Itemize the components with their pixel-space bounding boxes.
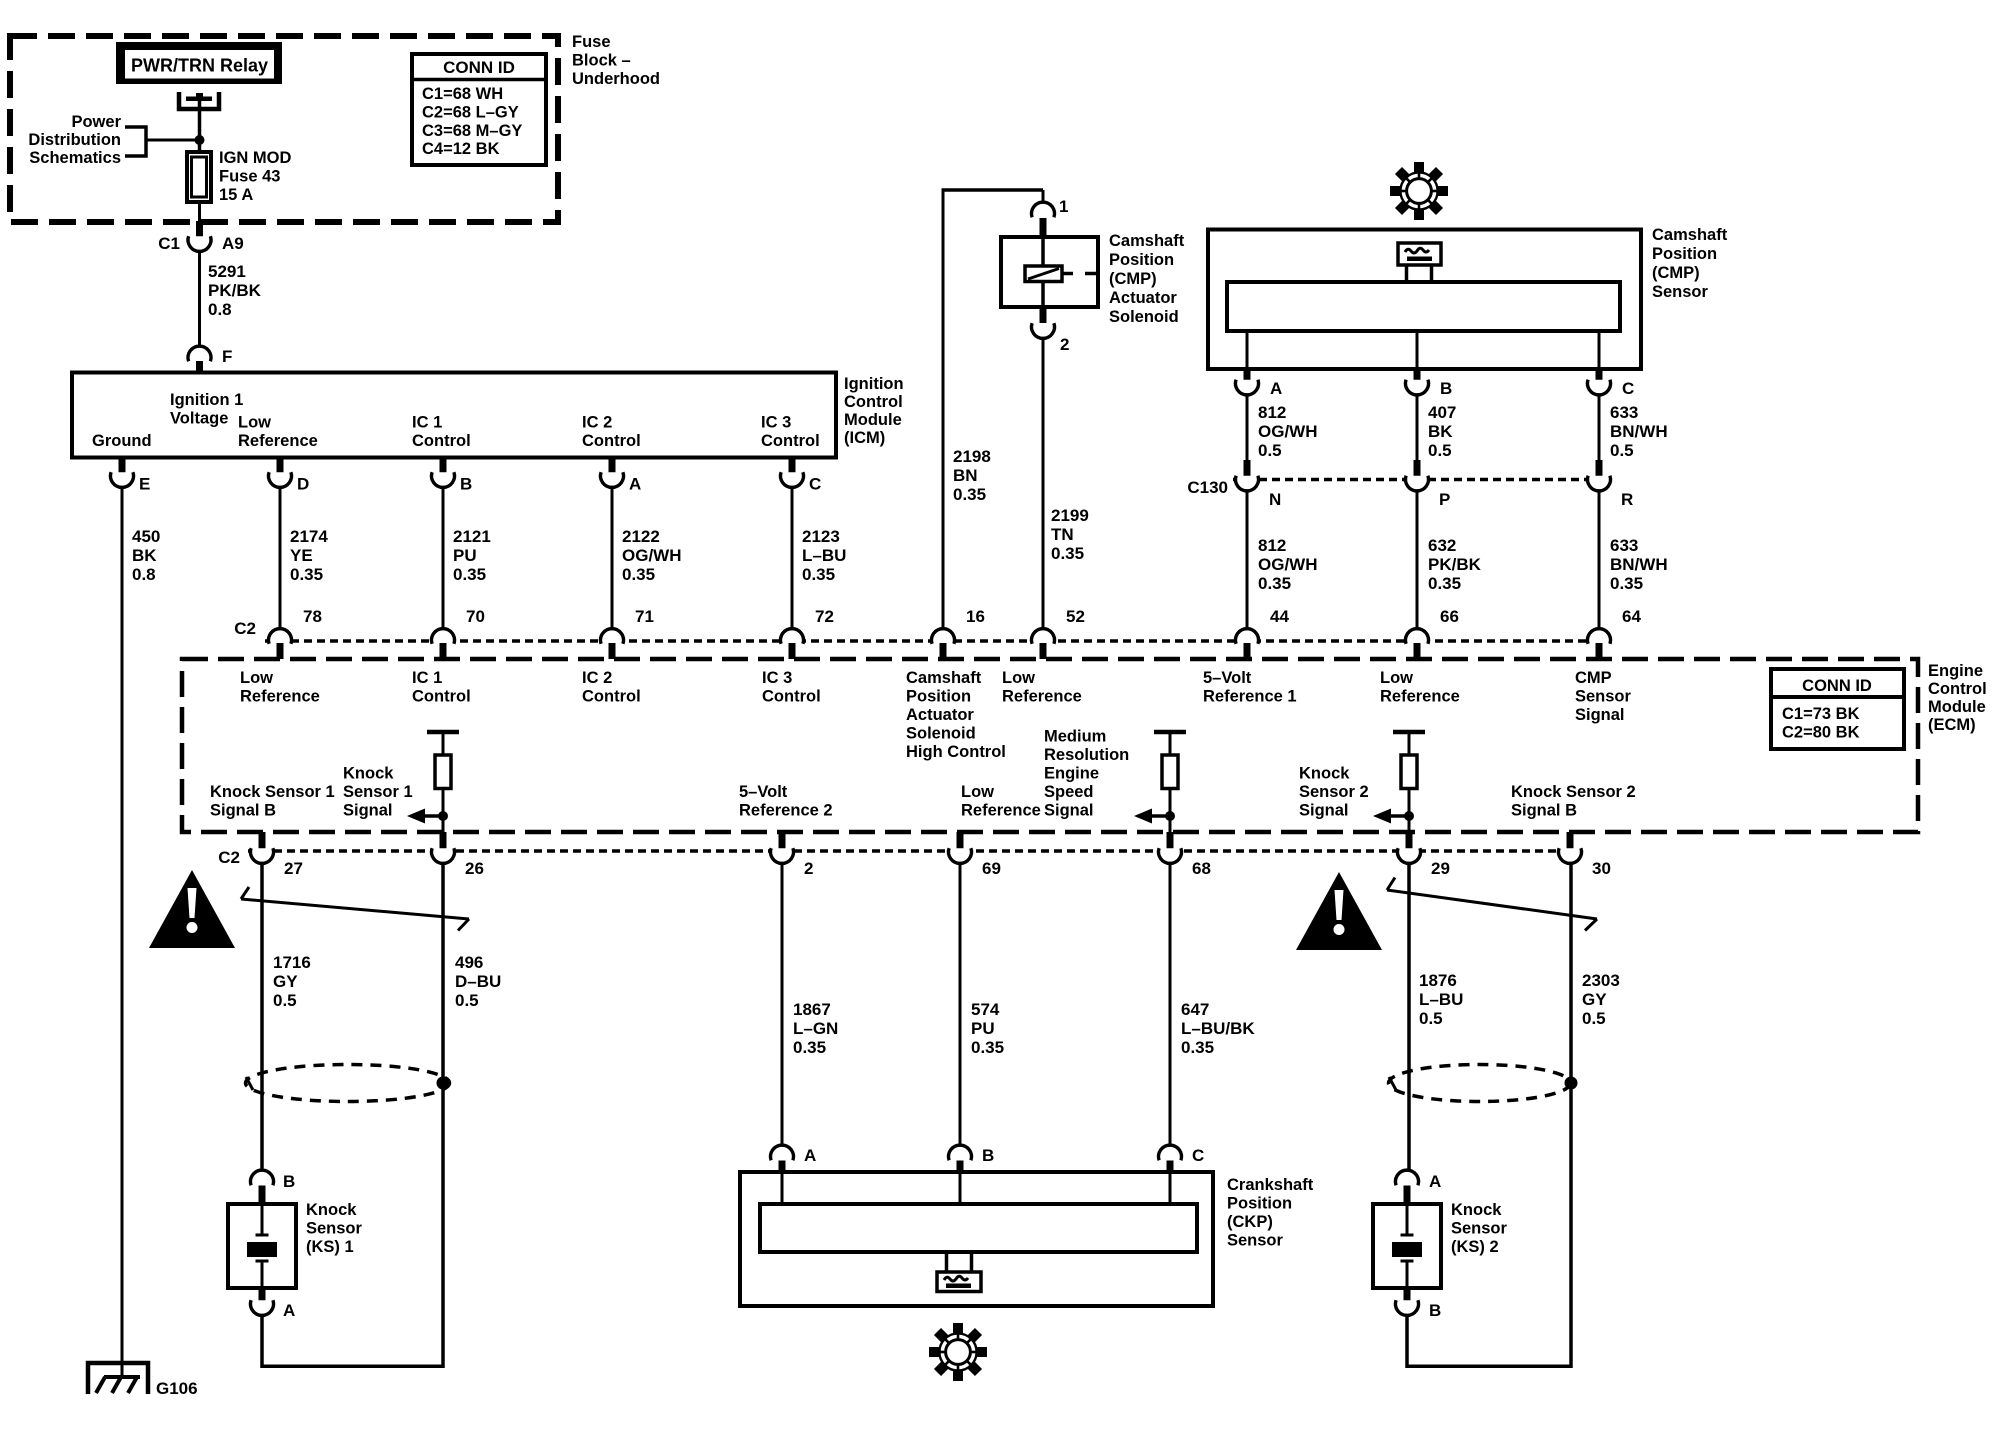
svg-text:(CMP): (CMP)	[1109, 270, 1157, 288]
svg-text:0.35: 0.35	[971, 1038, 1004, 1057]
svg-text:1: 1	[1059, 197, 1068, 216]
label: Low Reference (ECM pin 52)	[1002, 669, 1082, 706]
svg-text:2303: 2303	[1582, 971, 1620, 990]
svg-text:Knock: Knock	[1451, 1201, 1502, 1219]
svg-text:0.5: 0.5	[455, 991, 479, 1010]
label: 5-Volt Reference 2	[739, 783, 833, 820]
svg-text:IC 2: IC 2	[582, 669, 612, 687]
svg-text:5–Volt: 5–Volt	[1203, 669, 1252, 687]
label: C2 (top row)	[234, 619, 256, 638]
svg-text:0.35: 0.35	[1610, 574, 1643, 593]
wire 2121 PU 0.35	[443, 489, 491, 628]
svg-text:5291: 5291	[208, 262, 246, 281]
engine control module (ECM) dashed box	[182, 659, 1918, 832]
label: IC 1 Control (ECM)	[412, 669, 471, 706]
svg-text:C: C	[809, 475, 821, 494]
svg-text:Actuator: Actuator	[1109, 289, 1177, 307]
svg-text:A: A	[1429, 1172, 1441, 1191]
svg-text:68: 68	[1192, 859, 1211, 878]
svg-text:IGN MOD: IGN MOD	[219, 149, 291, 167]
svg-text:C2=68 L–GY: C2=68 L–GY	[422, 103, 519, 121]
wire 496 D-BU 0.5	[443, 865, 501, 1368]
ECM pin 16	[932, 607, 985, 659]
svg-text:L–BU/BK: L–BU/BK	[1181, 1019, 1255, 1038]
svg-text:Actuator: Actuator	[906, 706, 974, 724]
svg-text:B: B	[1440, 379, 1452, 398]
wire 633 BN/WH 0.5	[1599, 396, 1668, 461]
svg-text:Reference: Reference	[1002, 688, 1082, 706]
wire 574 PU 0.35	[960, 865, 1004, 1144]
connector C130 pin N	[1236, 460, 1282, 509]
label: Camshaft Position (CMP) Sensor	[1652, 226, 1728, 301]
wire 1876 L-BU 0.5	[1409, 865, 1463, 1169]
svg-text:78: 78	[303, 607, 322, 626]
svg-text:0.5: 0.5	[1428, 441, 1452, 460]
svg-text:Block –: Block –	[572, 52, 631, 70]
svg-text:E: E	[139, 475, 150, 494]
ECM pin 69	[949, 832, 1001, 878]
svg-text:D: D	[297, 475, 309, 494]
svg-text:632: 632	[1428, 536, 1456, 555]
svg-text:(CMP): (CMP)	[1652, 264, 1700, 282]
svg-text:647: 647	[1181, 1000, 1209, 1019]
connector C130 dashed line	[1233, 478, 1612, 482]
svg-text:Sensor: Sensor	[1652, 283, 1709, 301]
svg-text:Position: Position	[1109, 251, 1174, 269]
svg-text:A: A	[629, 475, 641, 494]
ECM pin 72	[781, 607, 834, 659]
ground G106	[88, 1363, 198, 1398]
label: Knock Sensor 1 Signal	[343, 765, 413, 820]
svg-text:B: B	[982, 1146, 994, 1165]
svg-text:C4=12 BK: C4=12 BK	[422, 140, 500, 158]
CMP sensor pin A	[1236, 331, 1283, 398]
svg-text:27: 27	[284, 859, 303, 878]
svg-text:IC 1: IC 1	[412, 669, 442, 687]
svg-text:High Control: High Control	[906, 743, 1006, 761]
svg-text:1716: 1716	[273, 953, 311, 972]
svg-text:0.35: 0.35	[290, 565, 323, 584]
svg-text:C2: C2	[218, 848, 240, 867]
svg-text:2: 2	[804, 859, 813, 878]
svg-text:YE: YE	[290, 546, 313, 565]
svg-text:Control: Control	[412, 688, 471, 706]
svg-text:F: F	[222, 347, 232, 366]
svg-text:2198: 2198	[953, 447, 991, 466]
svg-text:PK/BK: PK/BK	[208, 281, 262, 300]
svg-text:Control: Control	[762, 688, 821, 706]
resistor (knock sensor 2 signal, ECM internal)	[1373, 732, 1425, 832]
connector pin F of ICM	[188, 346, 232, 372]
svg-text:633: 633	[1610, 403, 1638, 422]
svg-text:GY: GY	[273, 972, 298, 991]
svg-text:BN/WH: BN/WH	[1610, 422, 1668, 441]
relay PWR/TRN	[116, 42, 282, 84]
svg-text:BK: BK	[132, 546, 157, 565]
resistor (medium resolution engine speed signal, ECM internal)	[1134, 732, 1186, 832]
label: C2 (bottom row)	[218, 848, 240, 867]
wire 5291 PK/BK 0.8	[200, 253, 262, 346]
svg-text:69: 69	[982, 859, 1001, 878]
camshaft position (CMP) actuator solenoid	[1001, 237, 1098, 307]
svg-text:407: 407	[1428, 403, 1456, 422]
svg-text:Knock Sensor 1: Knock Sensor 1	[210, 783, 335, 801]
label: Ignition 1 Voltage	[170, 391, 243, 428]
CKP sensor head symbol	[937, 1252, 981, 1292]
CKP sensor pin C	[1159, 1145, 1205, 1174]
svg-text:Reference: Reference	[961, 802, 1041, 820]
svg-text:2199: 2199	[1051, 506, 1089, 525]
svg-text:44: 44	[1270, 607, 1289, 626]
svg-text:64: 64	[1622, 607, 1641, 626]
svg-text:Position: Position	[1227, 1195, 1292, 1213]
svg-text:Sensor: Sensor	[1451, 1220, 1508, 1238]
ECM pin 66	[1406, 607, 1459, 659]
svg-text:Position: Position	[1652, 245, 1717, 263]
svg-text:16: 16	[966, 607, 985, 626]
conn id table fuse block	[412, 54, 546, 165]
svg-text:Knock Sensor 2: Knock Sensor 2	[1511, 783, 1636, 801]
svg-text:N: N	[1269, 490, 1281, 509]
svg-text:Distribution: Distribution	[28, 131, 121, 149]
svg-text:Control: Control	[1928, 680, 1987, 698]
svg-text:G106: G106	[156, 1379, 198, 1398]
knock sensor 1 pin B	[251, 1170, 296, 1204]
svg-text:Knock: Knock	[1299, 765, 1350, 783]
svg-text:B: B	[1429, 1301, 1441, 1320]
svg-text:PU: PU	[453, 546, 477, 565]
svg-text:Medium: Medium	[1044, 728, 1106, 746]
label: Ignition Control Module (ICM)	[844, 375, 904, 447]
svg-text:OG/WH: OG/WH	[622, 546, 682, 565]
label: Camshaft Position (CMP) Actuator Solenoid	[1109, 232, 1185, 326]
label: 5-Volt Reference 1	[1203, 669, 1297, 706]
wire fuse to connector C1	[198, 202, 201, 224]
svg-text:0.35: 0.35	[1051, 544, 1084, 563]
svg-text:OG/WH: OG/WH	[1258, 555, 1318, 574]
svg-text:26: 26	[465, 859, 484, 878]
svg-text:IC 3: IC 3	[761, 414, 791, 432]
ECM pin 52	[1032, 607, 1085, 659]
svg-text:TN: TN	[1051, 525, 1074, 544]
svg-text:L–BU: L–BU	[802, 546, 846, 565]
svg-text:Solenoid: Solenoid	[1109, 308, 1179, 326]
ECM pin 30	[1559, 832, 1611, 878]
resistor (knock sensor 1 signal, ECM internal)	[407, 732, 459, 832]
connector solenoid pin 2	[1032, 307, 1070, 354]
ECM pin 64	[1588, 607, 1642, 659]
svg-text:0.35: 0.35	[953, 485, 986, 504]
svg-text:C2: C2	[234, 619, 256, 638]
svg-text:Reference 2: Reference 2	[739, 802, 833, 820]
svg-text:812: 812	[1258, 536, 1286, 555]
svg-text:Low: Low	[961, 783, 994, 801]
svg-text:Signal: Signal	[1575, 706, 1625, 724]
svg-text:CMP: CMP	[1575, 669, 1612, 687]
fuse IGN MOD Fuse 43 15 A	[187, 149, 291, 204]
svg-text:29: 29	[1431, 859, 1450, 878]
wire 407 BK 0.5	[1417, 396, 1456, 461]
svg-text:Reference 1: Reference 1	[1203, 688, 1297, 706]
svg-text:(ECM): (ECM)	[1928, 716, 1976, 734]
power distribution schematics reference	[28, 113, 146, 167]
svg-text:0.5: 0.5	[1258, 441, 1282, 460]
wire 633 BN/WH 0.35	[1599, 492, 1668, 628]
svg-text:Reference: Reference	[1380, 688, 1460, 706]
ECM pin 2	[771, 832, 814, 878]
ICM pin B	[432, 458, 473, 494]
svg-text:Signal B: Signal B	[1511, 802, 1577, 820]
svg-text:IC 3: IC 3	[762, 669, 792, 687]
svg-text:(KS) 2: (KS) 2	[1451, 1238, 1499, 1256]
label: Low Reference (ICM)	[238, 414, 318, 451]
label: Engine Control Module (ECM)	[1928, 662, 1987, 734]
svg-text:15 A: 15 A	[219, 186, 253, 204]
fuse block - underhood dashed box	[10, 36, 558, 222]
svg-text:Camshaft: Camshaft	[906, 669, 982, 687]
connector solenoid pin 1	[1032, 197, 1069, 239]
knock sensor 2 pin A	[1395, 1170, 1441, 1204]
svg-text:71: 71	[635, 607, 654, 626]
connector C130 pin P	[1406, 460, 1451, 509]
svg-text:2123: 2123	[802, 527, 840, 546]
svg-text:Resolution: Resolution	[1044, 746, 1129, 764]
svg-text:Knock: Knock	[343, 765, 394, 783]
ignition control module (ICM) box	[72, 373, 836, 458]
svg-text:0.8: 0.8	[132, 565, 156, 584]
gear icon (crankshaft)	[929, 1323, 987, 1381]
svg-text:GY: GY	[1582, 990, 1607, 1009]
ECM pin 78	[269, 607, 322, 659]
svg-text:A: A	[283, 1301, 295, 1320]
CKP sensor pin B	[949, 1145, 995, 1174]
ICM pin E	[111, 458, 151, 494]
camshaft position (CMP) sensor box	[1208, 230, 1641, 370]
conn id table ECM	[1771, 669, 1904, 749]
svg-text:66: 66	[1440, 607, 1459, 626]
svg-text:0.35: 0.35	[1258, 574, 1291, 593]
svg-text:Signal: Signal	[1044, 802, 1094, 820]
svg-text:2174: 2174	[290, 527, 328, 546]
ICM pin A	[601, 458, 642, 494]
relay contact	[179, 92, 219, 109]
svg-text:C1=68 WH: C1=68 WH	[422, 85, 503, 103]
ECM pin 26	[432, 832, 484, 878]
label: Fuse Block - Underhood	[572, 33, 660, 88]
knock sensor (KS) 1	[228, 1201, 363, 1288]
svg-text:574: 574	[971, 1000, 1000, 1019]
wire 2198 BN 0.35 (camshaft actuator high control)	[942, 190, 1044, 628]
svg-text:C: C	[1622, 379, 1634, 398]
svg-text:2121: 2121	[453, 527, 491, 546]
CMP sensor head symbol	[1398, 243, 1441, 282]
connector C1 pin A9	[158, 221, 243, 253]
svg-text:0.5: 0.5	[1419, 1009, 1443, 1028]
svg-text:5–Volt: 5–Volt	[739, 783, 788, 801]
wire 647 L-BU/BK 0.35	[1170, 865, 1255, 1144]
ECM connector C2 dashed line (bottom row)	[248, 849, 1584, 853]
svg-text:Control: Control	[761, 432, 820, 450]
svg-text:B: B	[460, 475, 472, 494]
svg-text:Sensor 1: Sensor 1	[343, 783, 413, 801]
warning triangle (knock sensor 2 note)	[1296, 872, 1382, 950]
label: Crankshaft Position (CKP) Sensor	[1227, 1176, 1314, 1250]
svg-text:CONN ID: CONN ID	[443, 58, 515, 77]
svg-text:IC 2: IC 2	[582, 414, 612, 432]
wire 2123 L-BU 0.35	[792, 489, 846, 628]
svg-text:(ICM): (ICM)	[844, 429, 885, 447]
svg-text:L–GN: L–GN	[793, 1019, 838, 1038]
svg-text:0.35: 0.35	[793, 1038, 826, 1057]
svg-text:R: R	[1621, 490, 1633, 509]
knock sensor (KS) 2	[1373, 1201, 1508, 1288]
svg-text:Power: Power	[71, 113, 121, 131]
svg-text:496: 496	[455, 953, 483, 972]
svg-text:Engine: Engine	[1044, 765, 1099, 783]
wire 2303 GY 0.5	[1571, 865, 1620, 1368]
svg-text:Ignition 1: Ignition 1	[170, 391, 243, 409]
svg-text:1867: 1867	[793, 1000, 831, 1019]
svg-text:PWR/TRN Relay: PWR/TRN Relay	[131, 56, 268, 76]
svg-text:Sensor 2: Sensor 2	[1299, 783, 1369, 801]
wire knock sensor 2 return	[1407, 1317, 1571, 1369]
svg-text:72: 72	[815, 607, 834, 626]
svg-text:0.8: 0.8	[208, 300, 232, 319]
svg-text:CONN ID: CONN ID	[1802, 677, 1872, 695]
svg-text:450: 450	[132, 527, 160, 546]
ECM connector C2 dashed line (top row)	[265, 639, 1612, 643]
svg-text:Reference: Reference	[240, 688, 320, 706]
label: C130	[1187, 478, 1228, 497]
node power distribution tap	[195, 135, 205, 145]
ECM pin 29	[1398, 832, 1450, 878]
svg-text:Camshaft: Camshaft	[1652, 226, 1728, 244]
svg-text:Ground: Ground	[92, 432, 152, 450]
knock sensor 2 pin B	[1395, 1288, 1441, 1320]
svg-text:Sensor: Sensor	[1227, 1232, 1284, 1250]
svg-text:Fuse 43: Fuse 43	[219, 168, 280, 186]
svg-text:BN/WH: BN/WH	[1610, 555, 1668, 574]
gear icon (camshaft)	[1390, 162, 1448, 220]
svg-text:A9: A9	[222, 234, 244, 253]
svg-text:2: 2	[1060, 335, 1069, 354]
label: IC 1 Control (ICM)	[412, 414, 471, 451]
svg-text:C1: C1	[158, 234, 180, 253]
svg-text:A: A	[804, 1146, 816, 1165]
wire 2122 OG/WH 0.35	[612, 489, 682, 628]
svg-text:A: A	[1270, 379, 1282, 398]
wire knock sensor 1 return	[262, 1317, 443, 1369]
svg-text:Reference: Reference	[238, 432, 318, 450]
ECM pin 70	[432, 607, 485, 659]
svg-text:Low: Low	[1002, 669, 1035, 687]
label: IC 3 Control (ECM)	[762, 669, 821, 706]
svg-text:D–BU: D–BU	[455, 972, 501, 991]
svg-text:Signal: Signal	[343, 802, 393, 820]
wire 812 OG/WH 0.35	[1247, 492, 1318, 628]
svg-text:Fuse: Fuse	[572, 33, 611, 51]
svg-text:0.5: 0.5	[273, 991, 297, 1010]
svg-text:PU: PU	[971, 1019, 995, 1038]
svg-text:2122: 2122	[622, 527, 660, 546]
svg-text:Position: Position	[906, 688, 971, 706]
wire 2199 TN 0.35	[1043, 340, 1089, 628]
svg-text:Control: Control	[582, 432, 641, 450]
label: Knock Sensor 2 Signal	[1299, 765, 1369, 820]
svg-text:0.5: 0.5	[1582, 1009, 1606, 1028]
ICM pin D	[269, 458, 310, 494]
label: Camshaft Position Actuator Solenoid High Control	[906, 669, 1006, 761]
wire 2174 YE 0.35	[280, 489, 328, 628]
knock sensor 1 pin A	[251, 1288, 296, 1320]
svg-text:0.5: 0.5	[1610, 441, 1634, 460]
svg-text:Underhood: Underhood	[572, 70, 660, 88]
svg-text:70: 70	[466, 607, 485, 626]
svg-text:C3=68 M–GY: C3=68 M–GY	[422, 122, 522, 140]
label: IC 2 Control (ICM)	[582, 414, 641, 451]
svg-text:(KS) 1: (KS) 1	[306, 1238, 354, 1256]
connector C130 pin R	[1588, 460, 1634, 509]
ECM pin 44	[1236, 607, 1290, 659]
svg-text:Low: Low	[1380, 669, 1413, 687]
wire 1716 GY 0.5	[262, 865, 311, 1169]
wire 1867 L-GN 0.35	[782, 865, 838, 1144]
CMP sensor pin B	[1406, 331, 1453, 398]
svg-text:0.35: 0.35	[622, 565, 655, 584]
label: Knock Sensor 1 Signal B	[210, 783, 335, 820]
svg-text:Engine: Engine	[1928, 662, 1983, 680]
svg-text:IC 1: IC 1	[412, 414, 442, 432]
label: Knock Sensor 2 Signal B	[1511, 783, 1636, 820]
pointer arrow (knock sensor 1 wires)	[241, 887, 469, 931]
svg-text:1876: 1876	[1419, 971, 1457, 990]
shield ellipse (knock sensor 2 cable)	[1389, 1065, 1578, 1102]
svg-text:L–BU: L–BU	[1419, 990, 1463, 1009]
svg-text:0.35: 0.35	[802, 565, 835, 584]
crankshaft position (CKP) sensor box	[740, 1172, 1213, 1306]
label: Low Reference (ECM pin 66)	[1380, 669, 1460, 706]
svg-text:Low: Low	[240, 669, 273, 687]
shield ellipse (knock sensor 1 cable)	[246, 1065, 450, 1102]
ICM pin C	[781, 458, 822, 494]
pointer arrow (knock sensor 2 wires)	[1387, 878, 1597, 931]
CMP sensor pin C	[1588, 331, 1635, 398]
svg-text:OG/WH: OG/WH	[1258, 422, 1318, 441]
ECM pin 27	[251, 832, 303, 878]
svg-text:Knock: Knock	[306, 1201, 357, 1219]
svg-text:Control: Control	[844, 393, 903, 411]
svg-text:Sensor: Sensor	[1575, 688, 1632, 706]
wire node to power distribution reference	[146, 139, 200, 142]
svg-text:30: 30	[1592, 859, 1611, 878]
svg-text:Schematics: Schematics	[29, 149, 121, 167]
svg-text:Module: Module	[1928, 698, 1986, 716]
svg-text:Module: Module	[844, 411, 902, 429]
svg-text:Sensor: Sensor	[306, 1220, 363, 1238]
svg-text:BN: BN	[953, 466, 978, 485]
label: IC 3 Control (ICM)	[761, 414, 820, 451]
svg-text:Speed: Speed	[1044, 783, 1094, 801]
svg-text:C2=80 BK: C2=80 BK	[1782, 724, 1860, 742]
svg-text:C: C	[1192, 1146, 1204, 1165]
CKP sensor pin A	[771, 1145, 817, 1174]
wire 632 PK/BK 0.35	[1417, 492, 1482, 628]
svg-text:C130: C130	[1187, 478, 1228, 497]
ECM pin 68	[1159, 832, 1211, 878]
label: CMP Sensor Signal	[1575, 669, 1632, 724]
svg-text:B: B	[283, 1172, 295, 1191]
svg-text:52: 52	[1066, 607, 1085, 626]
